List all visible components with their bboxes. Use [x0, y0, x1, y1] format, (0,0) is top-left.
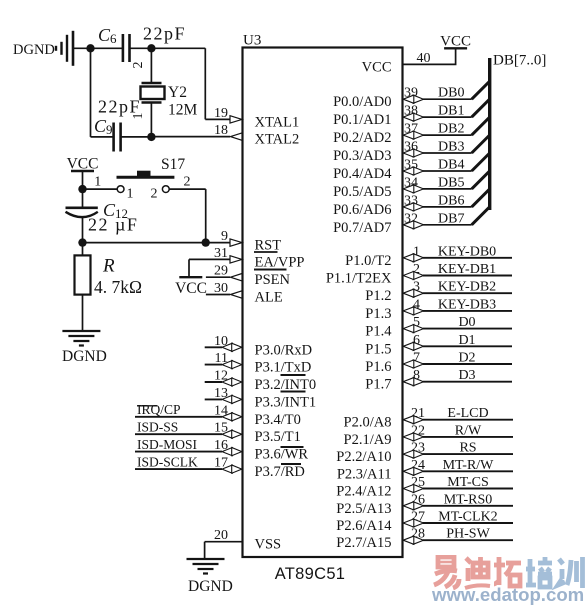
wire net D2	[423, 363, 512, 365]
svg-text:P1.0/T2: P1.0/T2	[345, 253, 391, 269]
svg-text:RS: RS	[459, 441, 476, 456]
pin 3 bidirectional arrow	[413, 289, 423, 297]
bus DB[7..0] vertical thick line	[488, 58, 491, 210]
wire S17 pin 2 right	[169, 188, 206, 190]
wire pin 29 PSEN stub	[206, 276, 230, 278]
wire to C9	[91, 136, 114, 138]
svg-text:1: 1	[94, 175, 101, 190]
wire C6 to node	[130, 47, 152, 49]
pin 14 bidirectional arrow	[222, 413, 232, 421]
overline on IRQ	[137, 405, 157, 407]
power VCC symbol (reset)	[71, 170, 94, 172]
wire to pin 19 XTAL1	[205, 118, 230, 120]
wire R to ground	[82, 295, 84, 331]
watermark char 1	[434, 557, 459, 588]
svg-text:P0.5/AD5: P0.5/AD5	[333, 184, 391, 200]
svg-text:ISD-SS: ISD-SS	[137, 419, 178, 434]
svg-text:KEY-DB0: KEY-DB0	[438, 244, 496, 259]
svg-text:P1.2: P1.2	[365, 288, 391, 304]
crystal Y2 top plate	[142, 82, 162, 85]
svg-text:ALE: ALE	[255, 290, 283, 306]
wire net D0	[423, 328, 512, 330]
bus entry DB4 diagonal	[472, 153, 490, 171]
svg-text:P1.7: P1.7	[365, 377, 391, 393]
wire node down to crystal	[150, 48, 152, 83]
capacitor C6 plates	[122, 34, 125, 62]
wire net KEY-DB1	[423, 275, 512, 277]
pin 17 bidirectional arrow	[222, 465, 232, 473]
svg-text:VSS: VSS	[255, 537, 282, 553]
watermark char 2	[465, 557, 490, 588]
pin 28 bidirectional arrow	[413, 536, 423, 544]
pin 7 bidirectional arrow	[413, 360, 423, 368]
wire net ISD-SS	[135, 433, 222, 435]
pin 39 bidirectional arrow	[413, 95, 423, 103]
svg-text:KEY-DB1: KEY-DB1	[438, 262, 496, 277]
svg-text:R/W: R/W	[455, 423, 482, 438]
capacitor C9 plates	[112, 123, 115, 152]
svg-text:DB1: DB1	[438, 104, 464, 119]
svg-text:P0.6/AD6: P0.6/AD6	[333, 202, 391, 218]
pin 32 bidirectional arrow	[413, 221, 423, 229]
pin 22 bidirectional arrow	[413, 433, 423, 441]
wire net KEY-DB3	[423, 310, 512, 312]
wire down to VCC bar	[188, 259, 190, 277]
pin 33 bidirectional arrow	[413, 203, 423, 211]
pin 34 bidirectional arrow	[413, 185, 423, 193]
svg-text:P3.5/T1: P3.5/T1	[255, 429, 301, 445]
bus entry DB7 diagonal	[472, 207, 490, 225]
svg-text:R: R	[102, 256, 115, 277]
svg-text:VCC: VCC	[67, 156, 99, 173]
pin 8 bidirectional arrow	[413, 378, 423, 386]
svg-text:E-LCD: E-LCD	[447, 406, 488, 421]
svg-text:DB0: DB0	[438, 86, 464, 101]
svg-text:P3.0/RxD: P3.0/RxD	[255, 342, 313, 358]
capacitor C12 curved plate	[66, 212, 98, 217]
switch S17 actuator bar	[117, 176, 175, 179]
svg-text:C6: C6	[98, 25, 117, 46]
wire pin 11 stub	[205, 364, 222, 366]
svg-text:EA/VPP: EA/VPP	[255, 254, 305, 270]
svg-text:D3: D3	[458, 368, 475, 383]
wire node down left branch	[90, 48, 92, 137]
svg-text:P3.6/WR: P3.6/WR	[255, 447, 309, 463]
wire net MT-CS	[423, 488, 513, 490]
watermark url text	[432, 584, 584, 606]
svg-text:P1.1/T2EX: P1.1/T2EX	[326, 271, 392, 287]
pin 9 input arrow	[230, 239, 242, 246]
power VCC symbol top-right	[444, 47, 467, 49]
wire VSS down to ground	[204, 542, 206, 559]
svg-text:MT-RS0: MT-RS0	[444, 492, 493, 507]
pin 12 bidirectional arrow	[222, 378, 232, 386]
svg-text:MT-CLK2: MT-CLK2	[438, 510, 497, 525]
svg-text:AT89C51: AT89C51	[275, 565, 346, 583]
wire net D3	[423, 381, 512, 383]
overline for PSEN (under EA/VPP)	[254, 269, 287, 271]
svg-text:DGND: DGND	[188, 578, 233, 595]
ground DGND sideways (top-left)	[56, 31, 73, 66]
svg-text:DB6: DB6	[438, 193, 464, 208]
svg-text:P3.3/INT1: P3.3/INT1	[255, 394, 317, 410]
svg-text:D2: D2	[458, 351, 475, 366]
wire corner down to XTAL1 row	[204, 48, 206, 119]
svg-text:U3: U3	[243, 33, 261, 49]
wire pin 38 to bus entry	[423, 116, 472, 118]
svg-text:PH-SW: PH-SW	[446, 527, 490, 542]
pin 18 output arrow	[231, 133, 243, 140]
pin 37 bidirectional arrow	[413, 131, 423, 139]
svg-text:4. 7kΩ: 4. 7kΩ	[94, 277, 142, 297]
svg-text:22pF: 22pF	[143, 24, 186, 44]
pin 4 bidirectional arrow	[413, 307, 423, 315]
junction node VCC/C12/S17	[78, 185, 86, 193]
overline for INT0 (under TxD)	[281, 374, 306, 376]
svg-text:P2.6/A14: P2.6/A14	[336, 518, 392, 534]
wire VCC to node	[82, 171, 84, 189]
overline for INT1 (under INT0)	[281, 391, 306, 393]
wire pin 13 stub	[205, 398, 222, 400]
pin 21 bidirectional arrow	[413, 416, 423, 424]
wire pin 10 stub	[205, 346, 222, 348]
wire net D1	[423, 345, 512, 347]
svg-text:P2.0/A8: P2.0/A8	[344, 415, 392, 431]
wire node to corner	[151, 47, 205, 49]
svg-text:ISD-MOSI: ISD-MOSI	[137, 437, 198, 452]
wire node to S17 pin 1	[83, 188, 118, 190]
wire net ISD-SCLK	[135, 468, 222, 470]
wire pin 36 to bus entry	[423, 152, 472, 154]
pin 35 bidirectional arrow	[413, 167, 423, 175]
svg-text:P0.2/AD2: P0.2/AD2	[333, 130, 391, 146]
bus entry DB2 diagonal	[472, 117, 490, 135]
wire net MT-CLK2	[423, 522, 513, 524]
svg-text:2: 2	[184, 175, 191, 190]
pin 11 bidirectional arrow	[222, 361, 232, 369]
wire C9 to node	[121, 136, 152, 138]
wire pin 35 to bus entry	[423, 170, 472, 172]
overline for WR (under T1)	[281, 446, 304, 448]
svg-text:MT-R/W: MT-R/W	[443, 458, 495, 473]
wire net PH-SW	[423, 539, 513, 541]
wire node to C6	[91, 47, 123, 49]
wire net R/W	[423, 436, 513, 438]
junction node XTAL2 net	[147, 133, 155, 141]
pin 31 input arrow	[230, 256, 242, 263]
svg-text:P3.7/RD: P3.7/RD	[255, 464, 305, 480]
svg-text:P1.4: P1.4	[365, 324, 392, 340]
wire pin 34 to bus entry	[423, 188, 472, 190]
svg-text:P0.4/AD4: P0.4/AD4	[333, 166, 392, 182]
svg-text:XTAL1: XTAL1	[255, 114, 300, 130]
svg-text:DB2: DB2	[438, 122, 464, 137]
wire net E-LCD	[423, 419, 513, 421]
wire net MT-RS0	[423, 505, 513, 507]
svg-text:22pF: 22pF	[98, 97, 141, 117]
svg-text:P2.1/A9: P2.1/A9	[344, 432, 392, 448]
svg-text:VCC: VCC	[175, 280, 207, 297]
ground DGND (VSS)	[187, 559, 225, 574]
pin 30 output arrow	[231, 291, 243, 298]
overline for EA (under RST)	[254, 251, 278, 253]
pin 25 bidirectional arrow	[413, 484, 423, 492]
bus entry DB1 diagonal	[472, 99, 490, 117]
wire node to C12	[82, 189, 84, 208]
svg-text:P2.4/A12: P2.4/A12	[336, 484, 391, 500]
wire net IRQ/CP	[135, 416, 222, 418]
svg-text:22 µF: 22 µF	[88, 215, 138, 235]
svg-text:P2.5/A13: P2.5/A13	[336, 501, 391, 517]
watermark char 3	[494, 557, 521, 586]
pin 15 bidirectional arrow	[222, 430, 232, 438]
wire net ISD-MOSI	[135, 451, 222, 453]
watermark char 4	[526, 557, 552, 587]
wire pin 31 EA/VPP	[189, 258, 230, 260]
pin 29 output arrow	[231, 274, 243, 281]
pin 24 bidirectional arrow	[413, 467, 423, 475]
junction node XTAL1 net top	[147, 44, 155, 52]
pin 23 bidirectional arrow	[413, 450, 423, 458]
wire pin 39 to bus entry	[423, 98, 472, 100]
svg-text:P0.1/AD1: P0.1/AD1	[333, 112, 391, 128]
bus entry DB0 diagonal	[472, 81, 490, 99]
svg-text:P0.3/AD3: P0.3/AD3	[333, 148, 391, 164]
svg-text:P0.7/AD7: P0.7/AD7	[333, 220, 391, 236]
svg-text:P3.1/TxD: P3.1/TxD	[255, 360, 312, 376]
wire RST net to pin 9	[83, 242, 231, 244]
pin 19 input arrow	[230, 116, 242, 123]
svg-text:IRQ/CP: IRQ/CP	[137, 402, 181, 417]
pin 5 bidirectional arrow	[413, 325, 423, 333]
svg-text:MT-CS: MT-CS	[447, 475, 489, 490]
wire ground to node	[73, 47, 91, 49]
wire node to pin 18 XTAL2	[151, 136, 230, 138]
pin 13 bidirectional arrow	[222, 395, 232, 403]
svg-text:S17: S17	[161, 156, 185, 173]
wire net RS	[423, 453, 513, 455]
junction S17 branch on RST net	[202, 238, 210, 246]
pin 27 bidirectional arrow	[413, 519, 423, 527]
svg-text:P1.5: P1.5	[365, 341, 391, 357]
svg-text:PSEN: PSEN	[255, 272, 291, 288]
pin 40 VCC wire	[403, 48, 456, 64]
svg-text:DB3: DB3	[438, 140, 464, 155]
svg-text:C9: C9	[94, 116, 113, 137]
pin 10 bidirectional arrow	[222, 343, 232, 351]
svg-text:DB[7..0]: DB[7..0]	[493, 53, 546, 69]
bus entry DB5 diagonal	[472, 171, 490, 189]
pin 36 bidirectional arrow	[413, 149, 423, 157]
power VCC symbol (EA/VPP)	[179, 276, 202, 278]
svg-text:P1.6: P1.6	[365, 359, 391, 375]
wire crystal to XTAL2 node	[150, 103, 152, 137]
svg-text:P1.3: P1.3	[365, 306, 391, 322]
svg-text:KEY-DB3: KEY-DB3	[438, 297, 496, 312]
wire net MT-R/W	[423, 470, 513, 472]
wire net KEY-DB0	[423, 257, 512, 259]
crystal Y2 bottom plate	[142, 101, 162, 104]
svg-text:2: 2	[151, 187, 158, 202]
svg-text:DGND: DGND	[13, 42, 55, 58]
wire pin 30 ALE stub	[206, 294, 230, 296]
svg-text:P2.7/A15: P2.7/A15	[336, 535, 391, 551]
svg-text:DB7: DB7	[438, 211, 464, 226]
svg-text:DB5: DB5	[438, 175, 464, 190]
pin 2 bidirectional arrow	[413, 271, 423, 279]
svg-text:1: 1	[127, 187, 134, 202]
svg-text:P2.3/A11: P2.3/A11	[337, 466, 392, 482]
svg-text:D0: D0	[458, 315, 475, 330]
junction node at C6 left	[86, 44, 94, 52]
ground DGND (reset section)	[62, 331, 100, 346]
svg-text:Y2: Y2	[168, 84, 187, 101]
bus entry DB6 diagonal	[472, 189, 490, 207]
wire net KEY-DB2	[423, 292, 512, 294]
svg-text:P0.0/AD0: P0.0/AD0	[333, 94, 391, 110]
pin 16 bidirectional arrow	[222, 448, 232, 456]
svg-text:2: 2	[131, 62, 146, 69]
svg-text:DGND: DGND	[62, 348, 107, 365]
svg-text:P2.2/A10: P2.2/A10	[336, 449, 391, 465]
switch S17 pin 2 terminal	[162, 186, 169, 193]
svg-text:DB4: DB4	[438, 158, 464, 173]
pin 26 bidirectional arrow	[413, 502, 423, 510]
wire C12 to RST net	[82, 218, 84, 243]
svg-text:P3.4/T0: P3.4/T0	[255, 412, 301, 428]
svg-text:XTAL2: XTAL2	[255, 132, 300, 148]
wire pin 33 to bus entry	[423, 206, 472, 208]
wire RST net to R	[82, 243, 84, 256]
watermark char 5	[558, 557, 583, 588]
wire pin 12 stub	[205, 381, 222, 383]
junction node C12/R/RST	[78, 238, 86, 246]
pin 38 bidirectional arrow	[413, 113, 423, 121]
pin 6 bidirectional arrow	[413, 342, 423, 350]
svg-text:ISD-SCLK: ISD-SCLK	[137, 454, 198, 469]
wire pin 20 VSS	[205, 541, 243, 543]
bus entry DB3 diagonal	[472, 135, 490, 153]
wire pin 37 to bus entry	[423, 134, 472, 136]
wire down to RST net	[205, 189, 207, 243]
watermark logo characters	[430, 555, 588, 593]
svg-text:VCC: VCC	[362, 59, 392, 75]
svg-text:D1: D1	[458, 333, 475, 348]
overline for RD (under WR)	[281, 463, 301, 465]
svg-text:12M: 12M	[168, 102, 198, 119]
svg-text:KEY-DB2: KEY-DB2	[438, 280, 496, 295]
crystal Y2 body	[141, 87, 165, 100]
wire pin 32 to bus entry	[423, 224, 472, 226]
svg-text:VCC: VCC	[440, 34, 471, 50]
IC U3 AT89C51 body	[243, 48, 403, 558]
pin 1 bidirectional arrow	[413, 254, 423, 262]
